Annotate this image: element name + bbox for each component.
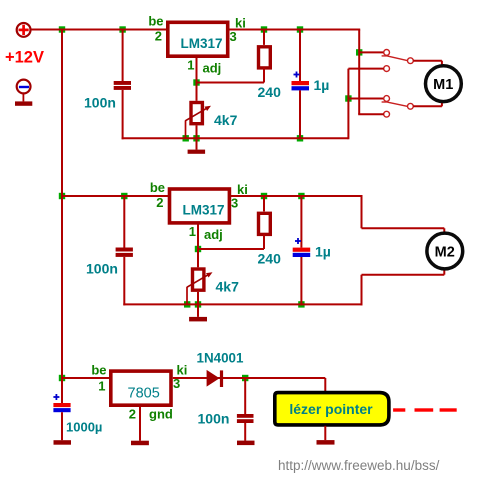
potentiometer P2 bottom wire bbox=[197, 292, 199, 305]
wire left supply rail vertical bbox=[61, 30, 63, 379]
minus supply terminal bbox=[17, 80, 31, 94]
potentiometer P2 top wire bbox=[197, 249, 199, 267]
node rail2b pot bbox=[195, 301, 201, 307]
node rail1b pot bbox=[193, 135, 199, 141]
svg-text:100n: 100n bbox=[198, 411, 230, 427]
wire junction to connector pin1 bbox=[359, 51, 384, 53]
capacitor C5 1000u wire top bbox=[61, 378, 63, 403]
svg-text:2: 2 bbox=[156, 195, 163, 210]
wire ground vertical B block1 bbox=[347, 69, 349, 140]
svg-text:2: 2 bbox=[155, 29, 162, 44]
wire M2 loop top bbox=[362, 196, 445, 235]
wire top rail right segment bbox=[229, 29, 360, 31]
capacitor C5 plus mark bbox=[53, 394, 59, 400]
laser beam dashed line bbox=[393, 408, 457, 411]
svg-text:3: 3 bbox=[231, 196, 238, 211]
svg-text:LM317: LM317 bbox=[183, 203, 225, 218]
potentiometer P1 body bbox=[191, 103, 202, 124]
regulator 7805 U3 box bbox=[111, 371, 171, 405]
potentiometer P1 wiper arrow bbox=[185, 106, 211, 121]
node rail2b C4 bbox=[298, 301, 304, 307]
ground block2 bbox=[189, 304, 207, 321]
svg-text:1: 1 bbox=[187, 58, 194, 73]
motor M2 bbox=[427, 233, 463, 269]
svg-text:M1: M1 bbox=[433, 77, 453, 93]
node connector A bbox=[356, 49, 362, 55]
node rail2 left bbox=[59, 193, 65, 199]
resistor R2 240 top stub bbox=[263, 196, 265, 211]
wire U2 adj stub bbox=[197, 225, 199, 250]
capacitor C5 1000u plates bbox=[53, 403, 70, 412]
node rail1b wiper bbox=[183, 135, 189, 141]
node adj1 bbox=[193, 79, 199, 85]
ground U3 pin2 bbox=[131, 407, 149, 445]
svg-text:240: 240 bbox=[258, 84, 282, 100]
capacitor C6 100n wire top bbox=[244, 378, 246, 414]
svg-text:ki: ki bbox=[237, 182, 248, 197]
svg-text:M2: M2 bbox=[435, 244, 455, 260]
capacitor C4 1u wire bottom bbox=[300, 257, 302, 305]
node rail1b C2 bbox=[297, 135, 303, 141]
node rail2 C3 bbox=[121, 193, 127, 199]
wire junction B to connector pin3 bbox=[348, 98, 383, 100]
potentiometer P1 bottom wire bbox=[196, 125, 198, 138]
node rail1 R1 bbox=[261, 26, 267, 32]
svg-text:http://www.freeweb.hu/bss/: http://www.freeweb.hu/bss/ bbox=[278, 458, 440, 473]
connector pin circle 2 bbox=[384, 66, 390, 72]
capacitor C5 ground bbox=[54, 412, 72, 445]
node connector B bbox=[345, 95, 351, 101]
capacitor C1 100n wire top bbox=[122, 30, 124, 82]
ground block1 bbox=[188, 138, 206, 154]
wire bridge pin1 to moving pin top bbox=[382, 56, 409, 61]
resistor R1 240 top stub bbox=[263, 30, 265, 45]
svg-text:1: 1 bbox=[98, 379, 105, 394]
capacitor C4 plus mark bbox=[295, 238, 301, 244]
node rail2b wiper bbox=[184, 301, 190, 307]
svg-text:1µ: 1µ bbox=[315, 244, 331, 260]
connector pin circle 4 bbox=[384, 111, 390, 117]
capacitor C1 100n wire bottom bbox=[122, 90, 124, 139]
svg-text:1µ: 1µ bbox=[314, 77, 330, 93]
capacitor C3 100n wire top bbox=[123, 196, 125, 248]
capacitor C4 1u wire top bbox=[300, 196, 302, 248]
connector pin circle 3 bbox=[384, 96, 390, 102]
connector moving pin circle top bbox=[408, 58, 414, 64]
diode D1 1N4001 bbox=[207, 370, 223, 387]
svg-text:2: 2 bbox=[129, 407, 136, 422]
node be 7805 bbox=[59, 375, 65, 381]
svg-text:+12V: +12V bbox=[5, 49, 44, 67]
wire diode to laser bbox=[245, 378, 325, 392]
wire top rail left segment bbox=[31, 29, 167, 31]
svg-text:1N4001: 1N4001 bbox=[197, 351, 244, 366]
svg-text:be: be bbox=[150, 180, 165, 195]
svg-text:lézer pointer: lézer pointer bbox=[289, 401, 373, 417]
wire moving pin bottom to M1 bbox=[413, 102, 442, 107]
capacitor C3 100n plates bbox=[116, 248, 133, 257]
ground laser pointer bbox=[317, 426, 335, 445]
potentiometer P2 wiper drop wire bbox=[186, 287, 188, 304]
node rail1 left bbox=[59, 26, 65, 32]
capacitor C3 100n wire bottom bbox=[123, 257, 125, 306]
plus supply terminal bbox=[17, 23, 31, 37]
svg-text:LM317: LM317 bbox=[181, 36, 223, 51]
capacitor C6 ground bbox=[237, 423, 255, 445]
svg-text:adj: adj bbox=[204, 227, 223, 242]
capacitor C2 1u wire bottom bbox=[299, 90, 301, 139]
svg-text:be: be bbox=[91, 363, 106, 378]
potentiometer P1 wiper drop wire bbox=[185, 121, 187, 139]
potentiometer P2 body bbox=[193, 269, 204, 290]
resistor R2 240 bottom stub bbox=[263, 234, 265, 249]
svg-text:4k7: 4k7 bbox=[216, 279, 240, 295]
connector pin circle 1 bbox=[384, 50, 390, 56]
svg-text:1: 1 bbox=[189, 224, 196, 239]
wire be line 7805 bbox=[62, 377, 111, 379]
wire bottom rail block2 bbox=[123, 303, 362, 305]
capacitor C2 1u plates bbox=[292, 81, 310, 90]
wire ki line to diode bbox=[173, 377, 245, 379]
wire adj line U1 bbox=[197, 82, 265, 84]
capacitor C2 plus mark bbox=[294, 72, 300, 78]
node adj2 bbox=[195, 246, 201, 252]
svg-text:4k7: 4k7 bbox=[214, 112, 238, 128]
wire bridge pin3 to moving pin bottom bbox=[382, 102, 409, 107]
wire output vertical A block1 bbox=[358, 30, 360, 115]
resistor R1 240 body bbox=[259, 47, 271, 68]
capacitor C2 1u wire top bbox=[299, 30, 301, 82]
svg-text:100n: 100n bbox=[84, 95, 116, 111]
node rail2 R2 bbox=[261, 193, 267, 199]
node rail1 C1 bbox=[119, 26, 125, 32]
wire U1 adj stub bbox=[196, 58, 198, 83]
svg-text:7805: 7805 bbox=[128, 386, 160, 402]
op LM317 U2 box bbox=[170, 189, 230, 223]
connector moving pin circle bottom bbox=[408, 103, 414, 109]
wire minus terminal to ground bbox=[22, 93, 24, 101]
svg-text:240: 240 bbox=[258, 251, 282, 267]
wire mid rail left segment bbox=[62, 195, 169, 197]
ground bar under minus terminal bbox=[15, 101, 32, 105]
motor M1 bbox=[426, 66, 462, 102]
wire mid rail right segment bbox=[231, 195, 363, 197]
capacitor C1 100n plates bbox=[114, 81, 131, 90]
svg-text:gnd: gnd bbox=[149, 407, 173, 422]
wire bottom rail block1 bbox=[122, 137, 349, 139]
potentiometer P2 wiper arrow bbox=[187, 272, 213, 287]
capacitor C4 1u plates bbox=[293, 248, 311, 257]
resistor R2 240 body bbox=[259, 213, 271, 234]
wire M2 loop bottom bbox=[362, 267, 445, 305]
resistor R1 240 bottom stub bbox=[263, 67, 265, 82]
node rail2 C4 bbox=[298, 193, 304, 199]
wire moving pin top to M1 bbox=[413, 61, 442, 66]
op LM317 U1 box bbox=[168, 22, 228, 56]
wire pin2 to vertical B bbox=[348, 68, 383, 70]
svg-text:adj: adj bbox=[203, 61, 222, 76]
svg-text:100n: 100n bbox=[86, 261, 118, 277]
node rail1 C2 bbox=[297, 26, 303, 32]
capacitor C6 100n plates bbox=[237, 414, 254, 423]
potentiometer P1 top wire bbox=[196, 83, 198, 101]
wire adj line U2 bbox=[198, 248, 264, 250]
node diode out bbox=[242, 375, 248, 381]
svg-text:1000µ: 1000µ bbox=[66, 420, 102, 435]
svg-text:be: be bbox=[148, 14, 163, 29]
wire pin4 to vertical A bbox=[358, 113, 384, 115]
laser pointer box bbox=[275, 393, 389, 425]
svg-text:3: 3 bbox=[230, 29, 237, 44]
